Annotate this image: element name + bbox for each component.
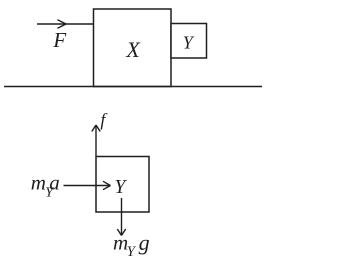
acceleration arrow mYa [64,181,111,189]
force arrow F [37,20,94,28]
svg-text:f: f [100,109,108,129]
free-body box Y [96,157,149,213]
svg-text:Y: Y [115,177,128,198]
block X [94,9,172,87]
svg-text:mYa: mYa [31,171,60,201]
friction arrow f [92,125,100,157]
svg-text:mYg: mYg [113,230,150,260]
block Y [171,24,207,59]
ground line [4,86,262,88]
weight arrow mYg [117,198,125,236]
svg-text:F: F [52,28,66,52]
svg-text:X: X [125,37,141,62]
